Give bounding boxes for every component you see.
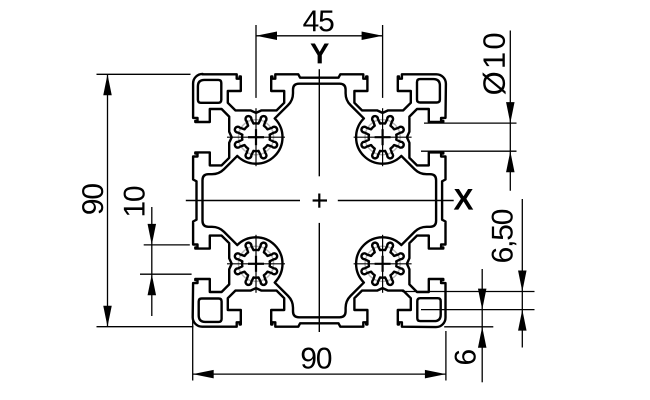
- screw channel star 1 gear bore: [235, 116, 277, 158]
- dim dia10 text: [483, 34, 506, 95]
- dim 6,50 text: [492, 210, 517, 262]
- star 2 crosshair: [354, 136, 412, 138]
- screw channel star 1 thread circle: [238, 120, 273, 155]
- star 1 crosshair: [227, 136, 285, 138]
- dim 10 text: [124, 187, 145, 216]
- corner hole top-right: [417, 79, 440, 102]
- dim 90 left text: [82, 184, 103, 214]
- screw channel star 3 thread circle: [365, 246, 400, 281]
- screw channel star 2 thread circle: [365, 120, 400, 155]
- dim 6 ext line: [444, 326, 493, 328]
- corner hole bottom-left: [199, 299, 222, 322]
- profile outer contour with 8 T-slot chambers: [193, 74, 446, 327]
- screw channel star 4 gear bore: [235, 243, 277, 285]
- dim 6 line + arrows: [481, 269, 483, 382]
- Y axis centerline: [318, 69, 320, 176]
- star 3 crosshair: [354, 263, 412, 265]
- X axis label: [454, 189, 473, 210]
- star 4 crosshair: [227, 263, 285, 265]
- dim 10 ext lines: [144, 244, 190, 246]
- dim 6,50 ext lines: [402, 291, 535, 293]
- Y axis label: [311, 43, 329, 63]
- screw channel star 2 gear bore: [361, 116, 403, 158]
- dim 90 left ext lines: [97, 73, 191, 75]
- corner hole bottom-right: [417, 298, 440, 321]
- dim 6 text: [455, 350, 476, 364]
- screw channel star 3 gear bore: [361, 243, 403, 285]
- screw channel star 4 thread circle: [238, 246, 273, 281]
- dim dia10 tangent lines: [424, 122, 517, 124]
- dim 90 left line: [107, 74, 109, 326]
- dim 10 line + arrows: [151, 207, 153, 316]
- central cavity: [203, 84, 437, 318]
- corner hole top-left: [198, 80, 221, 103]
- X axis centerline: [186, 200, 300, 202]
- dim 45 ext lines: [255, 25, 257, 98]
- dim 90 bottom ext lines: [192, 321, 194, 381]
- dim dia10 line + arrows: [509, 31, 511, 191]
- dim 45 text: [303, 11, 333, 32]
- dim 90 bottom line: [193, 373, 446, 375]
- dim 6,50 line + arrows: [521, 199, 523, 348]
- dim 45 line: [256, 35, 383, 37]
- dim 90 bottom text: [302, 348, 332, 369]
